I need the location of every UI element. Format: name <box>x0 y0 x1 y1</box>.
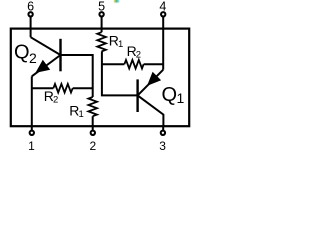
wire Q2 emitter down to pin1 <box>31 76 33 126</box>
Q2 emitter arrow <box>35 60 50 73</box>
wire pin1 stub <box>31 126 33 130</box>
pin 1 terminal <box>30 131 34 135</box>
Q1 emitter arrow <box>147 72 161 86</box>
resistor R2 (right) <box>124 60 143 69</box>
wire Q1 emitter diagonal from pin4 <box>138 70 164 96</box>
wire Q1 collector diagonal to pin3 <box>138 95 164 126</box>
pin 2 terminal <box>91 131 95 135</box>
svg-text:2: 2 <box>136 50 141 61</box>
wire pin6 down <box>30 17 32 38</box>
resistor R2 (left) <box>53 84 72 93</box>
wire pin2 stub <box>92 126 94 130</box>
resistor R1 (left, vertical) <box>88 97 97 116</box>
pin 5 terminal <box>99 12 103 16</box>
package outline box <box>11 29 189 127</box>
wire R1 left bottom lead <box>92 116 94 126</box>
svg-text:2: 2 <box>53 95 58 106</box>
svg-text:1: 1 <box>28 139 35 153</box>
svg-text:2: 2 <box>29 50 37 66</box>
wire R1 right down to Q1 base <box>102 51 138 95</box>
wire R2 right leads <box>102 63 125 65</box>
wire Q2 collector diagonal from pin6 <box>31 37 61 55</box>
resistor R1 (right, vertical, from pin5) <box>97 32 106 51</box>
svg-text:1: 1 <box>79 109 84 120</box>
wire pin5 down to R1 <box>101 17 103 33</box>
svg-text:2: 2 <box>89 139 96 153</box>
wire R2 right lead <box>73 87 93 89</box>
wire Q2 emitter diagonal <box>32 55 61 76</box>
wire R2 right to pin4 line <box>144 63 164 65</box>
svg-text:Q: Q <box>14 41 30 63</box>
svg-text:Q: Q <box>162 84 178 106</box>
pin 3 terminal <box>161 131 165 135</box>
pin 4 terminal <box>161 12 165 16</box>
stray colored dot <box>114 0 119 3</box>
wire pin3 stub <box>162 126 164 130</box>
svg-text:3: 3 <box>159 139 166 153</box>
svg-text:1: 1 <box>177 90 185 106</box>
pin 6 terminal <box>28 12 32 16</box>
wire Q2 base right <box>61 55 93 97</box>
svg-text:1: 1 <box>118 39 123 50</box>
wire R2 left lead <box>32 87 54 89</box>
wire pin4 down (Q1 emitter feed) <box>162 17 164 70</box>
transistor Q1 base bar <box>136 79 138 112</box>
transistor Q2 base bar <box>59 39 61 72</box>
